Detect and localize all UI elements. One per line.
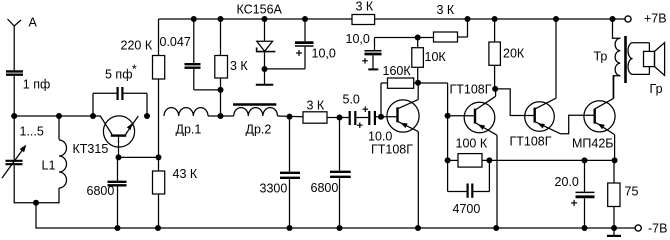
wire +7V top rail (159, 18, 625, 20)
capacitor 6800 second (330, 172, 351, 177)
node zener gnd (262, 66, 268, 72)
svg-text:10,0: 10,0 (346, 32, 370, 46)
node chokes mid (218, 113, 224, 119)
wire 100K right (482, 159, 489, 161)
wire 100K left (448, 159, 458, 161)
svg-text:5.0: 5.0 (343, 93, 360, 107)
resistor 3К rail (352, 15, 375, 25)
node 100K left (445, 157, 451, 163)
wire V3 collector up (495, 89, 497, 96)
svg-text:ГТ108Г: ГТ108Г (371, 143, 413, 157)
label 100К (456, 137, 488, 151)
resistor 43К (153, 171, 165, 194)
wire 5pf right (124, 93, 148, 116)
wire 6800a bottom (117, 187, 119, 229)
label 4700 (453, 202, 481, 216)
svg-text:220 К: 220 К (121, 39, 153, 53)
node 160K base (378, 114, 384, 120)
inductor L1 (59, 140, 67, 188)
label 160К (383, 64, 412, 78)
label 20.0 (555, 175, 579, 189)
wire T1 base node (119, 156, 159, 158)
svg-text:10,0: 10,0 (312, 47, 336, 61)
label 10,0 first (312, 47, 336, 61)
label 3300 (260, 182, 288, 196)
terminal +7V (625, 16, 631, 22)
node 75 rail (611, 225, 617, 231)
wire 20.0 bottom (584, 198, 586, 228)
svg-text:ГТ108Г: ГТ108Г (450, 83, 492, 97)
inductor Др.1 (164, 108, 208, 116)
svg-text:МП42Б: МП42Б (572, 137, 614, 151)
label +7V (644, 12, 667, 26)
node 3300 top (287, 114, 293, 120)
wire 6800b bottom (339, 178, 341, 228)
wire 10,0b bottom (372, 55, 374, 68)
wire 10,0a top (304, 19, 306, 41)
wire 160K right (414, 82, 418, 84)
wire 43K bottom (158, 194, 160, 228)
label ГТ108Г V2 (371, 143, 413, 157)
capacitor 10,0 first (295, 43, 314, 56)
capacitor 4700 (468, 184, 473, 198)
svg-text:20К: 20К (503, 47, 525, 61)
variable capacitor 1...5 (2, 145, 26, 178)
svg-text:-7В: -7В (648, 222, 667, 236)
capacitor 10.0 (363, 106, 375, 125)
wire V4 emitter link (561, 115, 594, 134)
wire 4700 left (448, 160, 467, 191)
zener diode КС156А (256, 41, 275, 51)
svg-text:*: * (132, 62, 137, 77)
node V3 collector (492, 86, 498, 92)
label 3К divider (230, 59, 248, 73)
label A (29, 16, 38, 30)
terminal -7V (635, 225, 641, 231)
wire V3 emitter down (496, 135, 498, 228)
wire 220K bottom (158, 79, 160, 171)
wire tank bottom (14, 202, 60, 204)
capacitor 1пф (6, 71, 23, 74)
node tank bottom (33, 200, 39, 206)
svg-text:5 пф: 5 пф (105, 68, 132, 82)
resistor 3К mid (303, 112, 327, 123)
wire V2 emitter down (417, 132, 419, 228)
node zener rail (262, 16, 268, 22)
svg-text:1...5: 1...5 (20, 125, 44, 139)
wire antenna cap to LC node (13, 76, 15, 116)
svg-text:10.0: 10.0 (368, 130, 392, 144)
wire 3K bottom (220, 78, 222, 116)
label 6800 second (311, 181, 339, 195)
wire tank to rail (35, 203, 37, 229)
svg-text:КТ315: КТ315 (73, 142, 109, 156)
wire 6800b top (339, 118, 341, 171)
label 5пф (105, 62, 137, 82)
wire choke out (278, 115, 304, 118)
wire 10K bottom (417, 67, 419, 83)
node V4 collector rail (553, 16, 559, 22)
capacitor 10,0 second (362, 51, 381, 64)
transistor V5 МП42Б (584, 98, 615, 134)
label 3К mid (307, 99, 325, 113)
node V3 base (445, 113, 451, 119)
wire 3K mid out (327, 117, 349, 119)
wire 160K left (381, 83, 388, 117)
transformer secondary (628, 43, 649, 75)
capacitor 20.0 (571, 192, 594, 206)
wire V2 to V3 base (418, 83, 448, 160)
node 3300 rail (287, 225, 293, 231)
node 3K third rail (465, 16, 471, 22)
node 20.0 rail (582, 225, 588, 231)
wire 10.0 to base (376, 116, 397, 118)
label 3К rail (356, 0, 374, 14)
wire 20K bottom (494, 65, 496, 89)
node 3K rail (218, 16, 224, 22)
node 0.047 to 3K (218, 87, 224, 93)
label 75 (625, 185, 639, 199)
svg-text:А: А (29, 16, 38, 30)
wire 4700 right (473, 160, 489, 191)
node T1 base (116, 154, 122, 160)
node 5pf right (144, 113, 150, 119)
label ГТ108Г V3 (450, 83, 492, 97)
wire 10,0a bottom (265, 47, 306, 69)
node 5pf left (90, 113, 96, 119)
inductor Др.2 (233, 105, 278, 117)
svg-text:100 К: 100 К (456, 137, 488, 151)
wire 5pf left (93, 93, 117, 116)
node 43K rail (155, 225, 161, 231)
label 1...5 (20, 125, 44, 139)
svg-text:1 пф: 1 пф (23, 78, 50, 92)
capacitor 3300 (280, 173, 300, 178)
svg-text:+7В: +7В (644, 12, 667, 26)
svg-text:L1: L1 (42, 159, 56, 173)
label 20К (503, 47, 525, 61)
capacitor 5пф (118, 87, 123, 100)
wire 20K top (494, 19, 496, 42)
wire V4 collector up (555, 19, 557, 98)
svg-text:4700: 4700 (453, 202, 481, 216)
wire transformer primary top (613, 19, 621, 38)
svg-text:3 К: 3 К (437, 3, 455, 17)
wire cap link (356, 117, 368, 119)
label -7V (648, 222, 667, 236)
label 5.0 (343, 93, 360, 107)
node antenna junction (11, 113, 17, 119)
node divider (156, 154, 162, 160)
wire choke link (208, 115, 234, 117)
transistor V3 ГТ108Г (464, 96, 497, 135)
transistor V4 ГТ108Г (525, 98, 561, 134)
svg-text:3300: 3300 (260, 182, 288, 196)
wire 220K top (158, 19, 160, 56)
wire 10K top (417, 38, 419, 48)
svg-text:10К: 10К (425, 50, 447, 64)
label Тр (594, 50, 608, 64)
svg-text:20.0: 20.0 (555, 175, 579, 189)
wire 0.047 top (193, 19, 195, 63)
wire 3300 bottom (289, 179, 291, 228)
node V2 collector (415, 80, 421, 86)
svg-text:Тр: Тр (594, 50, 608, 64)
node 100K right (486, 157, 492, 163)
capacitor 0.047 (185, 64, 201, 68)
wire V3 base (448, 115, 474, 117)
resistor 100К (458, 154, 482, 168)
speaker Гр (644, 43, 665, 76)
label 10.0 (368, 130, 392, 144)
svg-text:3 К: 3 К (307, 99, 325, 113)
label 6800 first (87, 184, 115, 198)
wire LC row (14, 115, 101, 117)
node V3 emitter rail (493, 225, 499, 231)
wire transformer primary bottom (613, 76, 620, 99)
svg-text:3 К: 3 К (356, 0, 374, 14)
svg-text:0.047: 0.047 (160, 35, 191, 49)
node 10,0a rail (302, 16, 308, 22)
svg-text:75: 75 (625, 185, 639, 199)
label Др.2 (246, 123, 272, 137)
node 10K top (415, 35, 421, 41)
label 1пф (23, 78, 50, 92)
capacitor 6800 first (108, 182, 127, 186)
wire 10,0b top (375, 38, 434, 51)
node V5 emitter (612, 157, 618, 163)
label Гр (650, 82, 663, 96)
wire 75 top (613, 160, 615, 183)
resistor 160К (388, 78, 414, 88)
wire V5 collector up (613, 76, 615, 99)
capacitor 5.0 (350, 111, 363, 128)
svg-text:160К: 160К (383, 64, 412, 78)
label КТ315 (73, 142, 109, 156)
svg-text:Др.1: Др.1 (176, 123, 202, 137)
node 20.0 top (582, 157, 588, 163)
svg-text:6800: 6800 (87, 184, 115, 198)
wire 3K third out (458, 19, 468, 37)
wire zener top (264, 19, 266, 41)
transistor V1 КТ315 (100, 116, 138, 157)
label 43К (173, 167, 198, 181)
wire 3K top (220, 19, 222, 56)
node transformer rail (610, 16, 616, 22)
wire -7V bottom rail (36, 227, 635, 229)
svg-text:Др.2: Др.2 (246, 123, 272, 137)
ground tick zener (256, 84, 273, 86)
svg-text:КС156А: КС156А (237, 3, 283, 17)
resistor 75 (608, 183, 620, 207)
wire 6800a top (117, 157, 119, 180)
wire feedback (489, 159, 614, 161)
ground tick bottom (607, 228, 621, 236)
label ГТ108Г V4 (510, 135, 552, 149)
wire varcap bottom (13, 166, 15, 203)
wire zener bottom (264, 52, 266, 84)
resistor 3К divider (215, 56, 228, 79)
resistor 220К (153, 56, 165, 80)
label 0.047 (160, 35, 191, 49)
label L1 (42, 159, 56, 173)
node V2 emitter rail (415, 225, 421, 231)
wire 0.047 bottom (194, 69, 221, 90)
resistor 10К (412, 48, 424, 68)
node 6800b rail (337, 225, 343, 231)
svg-text:ГТ108Г: ГТ108Г (510, 135, 552, 149)
ground tick 10,0b (368, 68, 378, 70)
wire V2 collector up (417, 83, 419, 100)
transformer Тр primary (615, 38, 620, 75)
svg-text:6800: 6800 (311, 181, 339, 195)
svg-text:3 К: 3 К (230, 59, 248, 73)
wire 75 bottom (613, 207, 615, 229)
antenna A (8, 19, 22, 70)
label 10К (425, 50, 447, 64)
svg-text:Гр: Гр (650, 82, 663, 96)
wire 3300 top (289, 117, 291, 172)
wire varcap top (13, 116, 15, 160)
node 20K rail (492, 16, 498, 22)
wire L1 top (58, 116, 60, 140)
label 3К third (437, 3, 455, 17)
svg-text:43 К: 43 К (173, 167, 198, 181)
label МП42Б (572, 137, 614, 151)
wire 20.0 top (584, 160, 586, 191)
wire V5 emitter down (614, 135, 616, 161)
label 10,0 second (346, 32, 370, 46)
node 6800a rail (115, 225, 121, 231)
node 6800b top (337, 115, 343, 121)
transistor V2 ГТ108Г (387, 100, 419, 133)
label Др.1 (176, 123, 202, 137)
wire V3 to V4 base (495, 89, 534, 116)
wire L1 bottom (58, 188, 60, 203)
label 220К (121, 39, 153, 53)
transformer core (624, 36, 627, 83)
node 0.047 rail (191, 16, 197, 22)
label КС156А (237, 3, 283, 17)
resistor 3К third (434, 32, 458, 42)
resistor 20К (489, 42, 501, 65)
node L1 top (56, 113, 62, 119)
